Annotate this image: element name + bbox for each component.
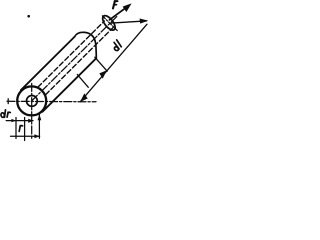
wire: extension line x=42 (mid-wall right) xyxy=(38,115,40,139)
arrowhead of dl line lower end xyxy=(80,93,88,102)
wire: cylinder outer upper tangent line xyxy=(21,37,75,91)
label r (drawn as paths) xyxy=(19,126,22,132)
wire: vertical center line of circle (dash-dot) xyxy=(31,83,33,140)
wire: axis center line (dash-dot) xyxy=(32,17,117,101)
wire: cylinder outer lower tangent line xyxy=(42,58,96,112)
label dl (rotated, drawn as paths) xyxy=(111,40,123,52)
arrowhead of dl line at ext2 xyxy=(99,70,107,78)
arrowhead of top horizontal arrow xyxy=(140,19,149,24)
node: tick at left end of horizontal center line xyxy=(7,99,9,104)
node: inner circle (shell radius r) xyxy=(27,96,38,107)
label dr (drawn as paths) xyxy=(1,110,11,118)
wire: dimension line A (dr) y=120.6 xyxy=(6,120,33,122)
node: small far ellipse (shell end face) xyxy=(100,14,117,33)
wire: horizontal arrow line at top xyxy=(111,21,147,23)
wire: dl dimension line xyxy=(80,24,147,101)
wire: inner shell upper silhouette (dashed) xyxy=(38,21,105,87)
wire: extension tick ext1 on lower cylinder line xyxy=(77,75,88,88)
wire: horizontal center line of circle (dash-dot) xyxy=(7,100,96,103)
wire: extension line x=16 (outer left tangent) xyxy=(15,118,17,139)
label F (drawn as paths) xyxy=(113,1,118,8)
wire: extension line x=24.6 (inner left tangent) xyxy=(24,118,26,141)
arrowhead of F xyxy=(123,3,132,12)
arrowhead pointing up at top of x=39.4 extension xyxy=(38,114,42,120)
dot artifact top-left xyxy=(27,15,30,18)
wire: extension line ext2 from break ellipse end xyxy=(95,57,107,71)
arrowhead dim A at x=16 xyxy=(11,119,16,122)
wire: dimension line B (r) y=136.3 xyxy=(11,135,40,137)
arrowhead dim B at x=42 xyxy=(34,134,39,138)
wire: inner shell lower silhouette (dashed) xyxy=(46,27,114,95)
wire: small ellipse crosshair along p (dash-dot) xyxy=(102,16,117,31)
node: break dome (outer cylinder broken end) xyxy=(75,32,97,58)
wire: force F line xyxy=(110,6,129,20)
arrowhead dim A blob at center line xyxy=(28,119,33,123)
node: big circle (rod near end face) xyxy=(17,86,46,115)
